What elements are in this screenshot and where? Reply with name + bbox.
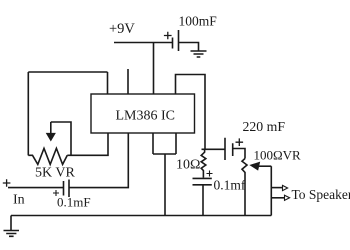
pin 4 lead — [175, 133, 177, 154]
wire 5K VR wiper bracket — [51, 122, 71, 155]
wire input — [8, 187, 64, 189]
ground top-right — [191, 51, 207, 57]
capacitor C 220mF output — [225, 138, 233, 160]
100 ohm VR wiper arrow — [251, 162, 260, 169]
svg-text:To Speaker: To Speaker — [292, 187, 350, 202]
svg-text:In: In — [13, 193, 25, 208]
resistor 100 ohm VR zigzag — [242, 159, 247, 216]
ground bottom-left stem — [10, 216, 12, 231]
op-amp U1 LM386 IC body — [91, 94, 195, 133]
svg-text:100ΩVR: 100ΩVR — [254, 148, 302, 163]
svg-text:5K VR: 5K VR — [35, 166, 75, 181]
plus sign input terminal — [3, 179, 11, 187]
svg-text:0.1mf: 0.1mf — [214, 178, 246, 193]
wire 100mF to ground — [179, 43, 199, 51]
wire pins 3-4 join bar — [153, 153, 176, 155]
wire 220mF to 100 ohm VR — [233, 149, 245, 159]
resistor R 10 ohm zigzag — [201, 149, 206, 178]
pin 1 top lead — [107, 72, 109, 94]
wire ground bus — [11, 215, 271, 217]
wire feedback left vertical — [27, 72, 29, 155]
terminal lower speaker arrow — [285, 195, 290, 200]
wire speaker riser vertical — [270, 166, 272, 215]
wire lower speaker stub — [271, 197, 284, 199]
plus sign 100mF positive — [164, 32, 172, 40]
wire +9V rail — [114, 42, 172, 44]
capacitor C 0.1mf zobel — [193, 178, 212, 184]
svg-text:10Ω: 10Ω — [176, 158, 200, 173]
wire wiper to speaker riser — [257, 165, 272, 167]
capacitor C 0.1mF input — [64, 180, 70, 198]
svg-text:220 mF: 220 mF — [243, 119, 286, 134]
plus sign zobel cap — [207, 171, 213, 177]
wire pins 3-4 to ground bus — [164, 154, 166, 216]
plus sign 220mF — [236, 138, 244, 146]
wire 5K VR right end to pin 8 — [67, 133, 108, 155]
wire zobel cap to ground bus — [202, 185, 204, 216]
wire output node horizontal — [202, 148, 226, 150]
ground bottom-left — [4, 231, 20, 237]
wire input cap to pin 2 — [69, 133, 128, 188]
capacitor C 100mF — [173, 30, 179, 51]
svg-text:LM386 IC: LM386 IC — [116, 109, 176, 124]
wire +9V supply drop to pin 6 — [153, 43, 155, 95]
5K VR wiper arrow — [50, 122, 52, 134]
svg-text:+9V: +9V — [109, 21, 135, 37]
wire feedback top — [28, 71, 107, 73]
pin 3 lead — [152, 133, 154, 154]
plus sign 0.1mF — [53, 190, 59, 196]
pin 5 output lead — [176, 75, 206, 150]
svg-text:0.1mF: 0.1mF — [57, 195, 91, 210]
svg-text:100mF: 100mF — [179, 14, 218, 29]
resistor 5K VR zigzag — [28, 148, 67, 164]
terminal upper speaker arrow — [283, 185, 288, 190]
wire upper speaker stub — [271, 187, 282, 189]
pin 7 bypass stub — [127, 69, 129, 94]
